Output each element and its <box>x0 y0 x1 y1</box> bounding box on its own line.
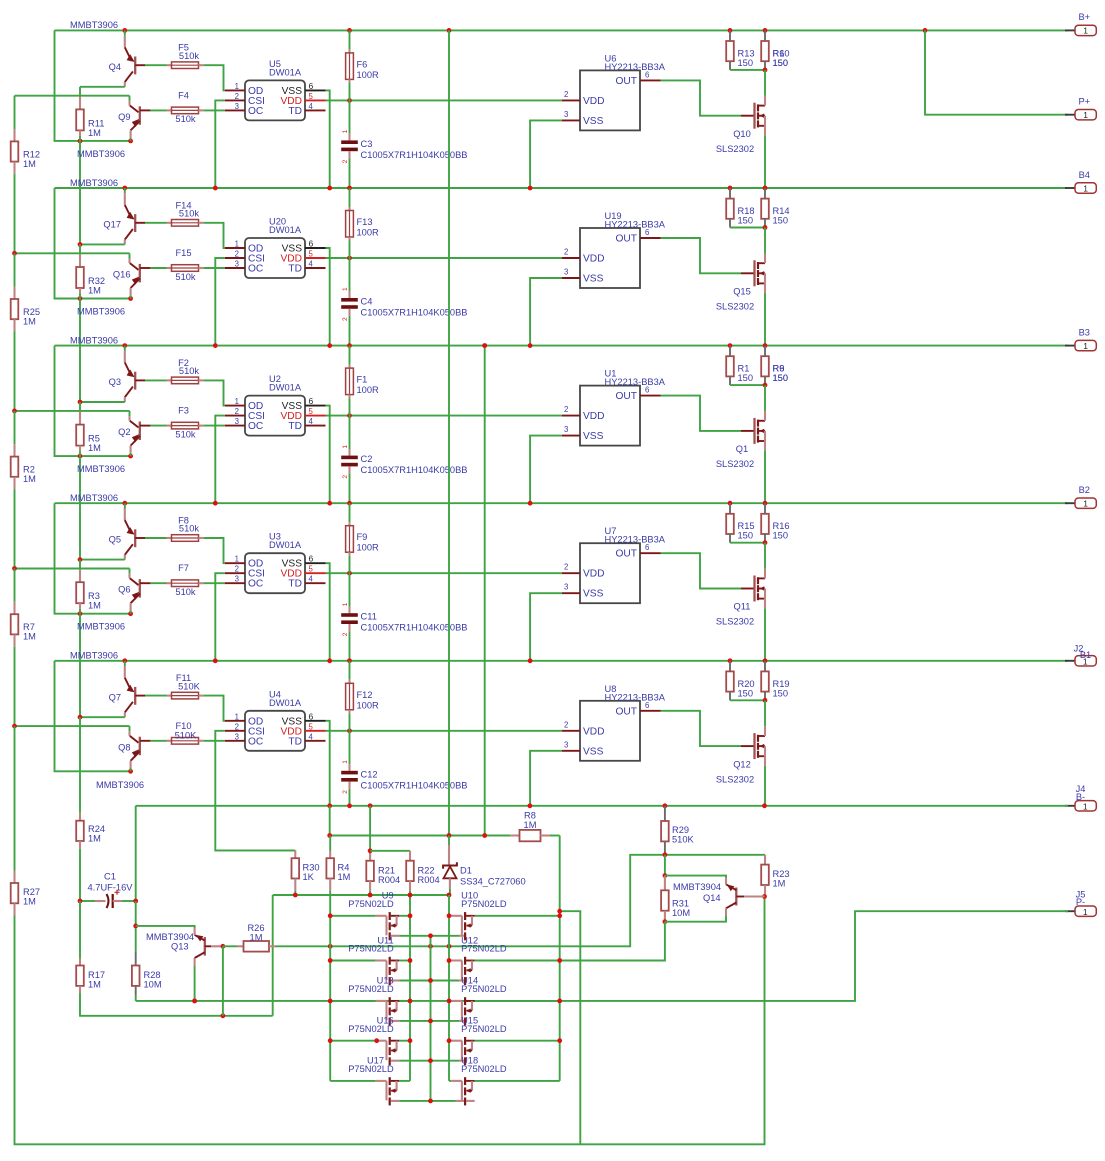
svg-text:HY2213-BB3A: HY2213-BB3A <box>605 220 666 230</box>
svg-text:OUT: OUT <box>615 391 637 402</box>
label R23 1M <box>773 869 790 889</box>
wire B- low bus <box>330 806 511 836</box>
svg-text:1M: 1M <box>23 632 36 642</box>
svg-text:4: 4 <box>309 732 314 741</box>
wire sense riser x272 <box>272 895 274 1016</box>
svg-text:510k: 510k <box>175 429 196 439</box>
junction (222.9,1015.8) <box>221 1013 226 1018</box>
svg-text:MMBT3906: MMBT3906 <box>70 178 118 188</box>
svg-text:1M: 1M <box>23 317 36 327</box>
svg-text:6: 6 <box>309 396 314 406</box>
svg-text:Q9: Q9 <box>118 112 130 122</box>
wire U3 VDD bus <box>326 572 563 574</box>
svg-text:510K: 510K <box>175 730 198 740</box>
svg-text:R30: R30 <box>303 863 320 873</box>
label R12 1M <box>23 149 40 169</box>
junction (329.7,835.5) <box>327 833 332 838</box>
node B3 label <box>1079 327 1090 337</box>
label F1 100R <box>357 375 380 396</box>
wire U7 VSS to rail <box>530 593 562 661</box>
label R31 10M <box>672 899 690 919</box>
svg-text:VSS: VSS <box>583 274 604 285</box>
svg-text:SLS2302: SLS2302 <box>716 302 754 312</box>
transistor U16 P75N02LD <box>330 1037 430 1065</box>
connector J2 pin 1 <box>1065 656 1096 667</box>
label R15 150 <box>738 521 755 541</box>
svg-text:R5: R5 <box>88 434 100 444</box>
label Q3 <box>109 377 121 387</box>
label Q5 <box>109 535 121 545</box>
svg-text:3: 3 <box>235 417 239 426</box>
svg-text:510K: 510K <box>178 681 201 691</box>
junction (130.6,456.1) <box>128 454 133 459</box>
node drain bus right junctions <box>557 913 562 1043</box>
svg-text:DW01A: DW01A <box>269 540 302 550</box>
resistor R5 1M <box>76 402 84 456</box>
label R27 1M <box>23 887 40 907</box>
label C12 <box>361 769 468 790</box>
transistor Q5 MMBT3906 <box>125 503 167 559</box>
svg-text:MMBT3906: MMBT3906 <box>96 780 144 790</box>
wire U5 VSS to rail <box>326 90 330 188</box>
resistor R19 150 <box>761 661 769 701</box>
fuse F12 100R <box>346 661 354 731</box>
wire B- left drop <box>135 806 137 901</box>
svg-text:R8: R8 <box>524 811 536 821</box>
svg-text:6: 6 <box>309 554 314 564</box>
svg-text:P75N02LD: P75N02LD <box>348 984 394 994</box>
svg-text:R25: R25 <box>23 307 40 317</box>
junction (222.9,946.3) <box>221 944 226 949</box>
svg-text:150: 150 <box>738 216 754 226</box>
label R24 1M <box>88 824 105 844</box>
svg-text:3: 3 <box>235 260 239 269</box>
fuse F2 510k <box>167 377 225 406</box>
svg-text:R3: R3 <box>88 591 100 601</box>
svg-text:P-: P- <box>1076 897 1085 907</box>
svg-text:1: 1 <box>1083 341 1088 351</box>
svg-text:F10: F10 <box>175 721 191 731</box>
connector B2 pin 1 <box>1065 498 1096 509</box>
label F3 510k <box>175 406 196 440</box>
junction (484.7,345.6) <box>482 343 487 348</box>
label MMBT3906 lower <box>96 780 144 790</box>
wire R31 top link <box>664 855 666 876</box>
svg-text:2: 2 <box>564 90 568 99</box>
transistor Q8 MMBT3906 <box>130 726 167 771</box>
svg-text:F13: F13 <box>357 217 373 227</box>
svg-text:1M: 1M <box>23 159 36 169</box>
transistor U15 P75N02LD <box>431 1037 560 1065</box>
wire Q4 collector to bus <box>80 86 125 88</box>
label U7 HY2213-BB3A <box>605 526 666 545</box>
svg-text:1: 1 <box>1083 26 1088 36</box>
resistor R1 150 <box>726 346 765 386</box>
wire bottom rail <box>15 897 765 1145</box>
wire row left frame <box>55 661 131 772</box>
wire U1 OUT to Q1 gate <box>661 396 742 431</box>
junction (349.5,573.2) <box>347 571 352 576</box>
wire row left frame <box>55 30 131 140</box>
wire Q8 collector to left bus <box>15 725 130 727</box>
svg-text:VDD: VDD <box>583 726 605 737</box>
svg-text:MMBT3906: MMBT3906 <box>77 464 125 474</box>
label F9 100R <box>357 532 380 553</box>
junction (765,385.1) <box>763 383 768 388</box>
svg-text:1M: 1M <box>524 820 537 830</box>
svg-text:Q13: Q13 <box>171 942 189 952</box>
svg-text:B-: B- <box>1076 792 1085 802</box>
wire B- drop to R28 <box>135 901 137 952</box>
svg-text:OUT: OUT <box>615 76 637 87</box>
transistor U12 P75N02LD <box>431 957 560 985</box>
svg-text:100R: 100R <box>357 228 380 238</box>
resistor R25 1M <box>11 253 19 411</box>
op-amp U6 HY2213-BB3A <box>562 70 661 130</box>
label MMBT3906 lower <box>77 464 125 474</box>
svg-text:4: 4 <box>309 575 314 584</box>
junction (194.6,1000.9) <box>192 999 197 1004</box>
wire bus x484 from B3 rail <box>484 346 486 836</box>
svg-text:1M: 1M <box>23 897 36 907</box>
svg-text:100R: 100R <box>357 385 380 395</box>
wire U3 VSS to rail <box>326 563 330 661</box>
junction (559.7,911.2) <box>557 909 562 914</box>
wire rail B1 <box>55 660 1069 662</box>
svg-text:3: 3 <box>564 425 568 434</box>
label C3 <box>361 139 468 160</box>
label R32 1M <box>88 276 105 296</box>
svg-text:R004: R004 <box>418 875 440 885</box>
svg-text:F7: F7 <box>178 563 189 573</box>
wire U2 VSS to rail <box>326 406 330 504</box>
op-amp U1 HY2213-BB3A <box>562 386 661 446</box>
svg-text:MMBT3906: MMBT3906 <box>70 335 118 345</box>
svg-text:C4: C4 <box>361 297 373 307</box>
svg-text:SLS2302: SLS2302 <box>716 144 754 154</box>
svg-text:B+: B+ <box>1078 12 1090 22</box>
wire U2 VDD bus <box>326 415 563 417</box>
svg-text:R15: R15 <box>738 521 755 531</box>
label MMBT3906 lower <box>77 307 125 317</box>
wire bus x80 segment <box>79 141 81 245</box>
svg-text:1: 1 <box>342 445 349 449</box>
svg-text:MMBT3904: MMBT3904 <box>146 932 194 942</box>
svg-text:1M: 1M <box>88 834 101 844</box>
svg-text:510K: 510K <box>672 835 695 845</box>
svg-text:R004: R004 <box>378 875 400 885</box>
node B2 label <box>1079 485 1090 495</box>
label F10 510K <box>175 721 198 741</box>
junction (664.9,854.8) <box>663 852 668 857</box>
wire U4 VSS to rail <box>326 721 330 806</box>
svg-text:C11: C11 <box>361 612 377 622</box>
node gate bus left junctions <box>328 913 333 1043</box>
label Q15 SLS2302 <box>716 287 754 312</box>
label U8 HY2213-BB3A <box>605 684 666 703</box>
op-amp U20 DW01A <box>225 238 326 278</box>
label F13 100R <box>357 217 380 238</box>
svg-text:B1: B1 <box>1080 650 1091 660</box>
junction (764.5,896.5) <box>762 894 767 899</box>
label R11 1M <box>88 118 104 137</box>
svg-text:1: 1 <box>235 240 239 249</box>
connector J5 pin 1 <box>1065 906 1096 917</box>
svg-text:510k: 510k <box>175 114 196 124</box>
svg-text:Q14: Q14 <box>703 893 721 903</box>
transistor Q3 MMBT3906 <box>125 346 167 402</box>
node J5 / P- label <box>1076 889 1086 907</box>
svg-text:DW01A: DW01A <box>269 225 302 235</box>
wire Q2 collector to left bus <box>15 410 130 412</box>
svg-text:R14: R14 <box>773 206 790 216</box>
svg-text:DW01A: DW01A <box>269 698 302 708</box>
transistor U11 P75N02LD <box>330 957 430 985</box>
resistor R10/R6 150 <box>761 30 769 70</box>
wire bus x80 segment <box>79 299 81 403</box>
junction (765,700.3) <box>763 698 768 703</box>
svg-text:C1005X7R1H104K050BB: C1005X7R1H104K050BB <box>361 465 468 475</box>
label U4 DW01A <box>269 689 302 708</box>
resistor R15 150 <box>726 503 765 543</box>
svg-text:R29: R29 <box>672 825 689 835</box>
svg-text:1M: 1M <box>88 443 101 453</box>
fuse F13 100R <box>346 188 354 258</box>
capacitor C4 C1005X7R1H104K050BB <box>341 258 358 346</box>
transistor Q11 SLS2302 <box>741 543 765 661</box>
svg-text:MMBT3906: MMBT3906 <box>77 622 125 632</box>
wire rail B3 <box>55 345 1069 347</box>
wire CSI sense <box>215 416 225 504</box>
transistor Q17 MMBT3906 <box>125 188 167 244</box>
junction (135.7,925.9) <box>133 924 138 929</box>
svg-text:5: 5 <box>309 565 314 574</box>
svg-text:1: 1 <box>235 712 239 721</box>
svg-text:Q10: Q10 <box>733 129 751 139</box>
junction (295.3,895) <box>293 893 298 898</box>
transistor U14 P75N02LD <box>431 997 560 1025</box>
label C4 <box>361 297 468 318</box>
svg-text:P75N02LD: P75N02LD <box>348 899 394 909</box>
resistor R4 1M <box>326 836 334 891</box>
capacitor C1 4.7UF-16V <box>80 890 136 908</box>
svg-text:1: 1 <box>1083 801 1088 811</box>
svg-text:C1005X7R1H104K050BB: C1005X7R1H104K050BB <box>361 308 468 318</box>
svg-text:1M: 1M <box>338 872 351 882</box>
svg-text:TD: TD <box>288 106 302 117</box>
svg-text:1M: 1M <box>250 933 263 943</box>
label R18 150 <box>738 206 755 226</box>
svg-text:510k: 510k <box>179 366 200 376</box>
wire U6 VSS to rail <box>530 120 562 188</box>
resistor R20 150 <box>726 661 765 701</box>
svg-text:6: 6 <box>309 711 314 721</box>
label F12 100R <box>357 690 380 711</box>
svg-text:R6: R6 <box>773 364 785 374</box>
wire bus x80 segment <box>79 717 81 813</box>
connector B4 pin 1 <box>1065 183 1096 194</box>
svg-text:150: 150 <box>773 531 789 541</box>
svg-text:Q11: Q11 <box>734 602 751 612</box>
svg-text:1: 1 <box>235 82 239 91</box>
svg-text:510k: 510k <box>179 524 200 534</box>
label R1 150 <box>738 364 754 384</box>
label U2 DW01A <box>269 374 302 393</box>
wire U19 VSS to rail <box>530 278 562 346</box>
node J4 / B- label <box>1076 784 1086 802</box>
label Q16 <box>113 270 131 280</box>
svg-text:R26: R26 <box>247 923 264 933</box>
junction (80,244.4) <box>78 242 83 247</box>
label U14 P75N02LD <box>461 976 507 994</box>
svg-text:P75N02LD: P75N02LD <box>348 1024 394 1034</box>
wire U20 VSS to rail <box>326 248 330 346</box>
label R20 150 <box>738 679 755 699</box>
junction (765,542.7) <box>763 540 768 545</box>
label R21 R004 <box>378 866 400 886</box>
resistor R17 1M <box>76 901 273 1016</box>
resistor R24 1M <box>76 813 84 901</box>
wire U5 VDD bus <box>326 99 563 101</box>
svg-text:C1005X7R1H104K050BB: C1005X7R1H104K050BB <box>361 780 468 790</box>
wire row left frame <box>55 503 131 614</box>
junction (664.9,875.6) <box>663 873 668 878</box>
svg-text:3: 3 <box>564 110 568 119</box>
transistor Q2 MMBT3906 <box>130 411 167 456</box>
svg-text:1M: 1M <box>88 980 101 990</box>
fuse F11 510K <box>167 692 225 721</box>
svg-text:4: 4 <box>309 260 314 269</box>
svg-text:150: 150 <box>773 216 789 226</box>
wire U20 VDD bus <box>326 257 563 259</box>
svg-text:510k: 510k <box>179 51 200 61</box>
fuse F1 100R <box>346 346 354 416</box>
svg-text:R27: R27 <box>23 887 40 897</box>
svg-text:2: 2 <box>235 92 239 101</box>
connector B3 pin 1 <box>1065 340 1096 351</box>
junction (130.6,298.5) <box>128 296 133 301</box>
label F2 510k <box>178 358 199 376</box>
label C11 <box>361 612 468 633</box>
label Q9 <box>118 112 130 122</box>
wire Q7 collector to bus <box>80 716 125 718</box>
svg-text:B3: B3 <box>1079 327 1090 337</box>
svg-text:3: 3 <box>564 583 568 592</box>
svg-text:MMBT3906: MMBT3906 <box>77 149 125 159</box>
svg-text:F1: F1 <box>357 375 368 385</box>
svg-text:6: 6 <box>309 239 314 249</box>
svg-text:P75N02LD: P75N02LD <box>461 984 507 994</box>
resistor R13 150 <box>726 30 765 70</box>
svg-text:2: 2 <box>564 405 568 414</box>
op-amp U19 HY2213-BB3A <box>562 228 661 288</box>
svg-text:510k: 510k <box>175 272 196 282</box>
svg-text:2: 2 <box>564 248 568 257</box>
svg-text:R32: R32 <box>88 276 105 286</box>
wire left gate bus x330 <box>329 891 331 1081</box>
label U1 HY2213-BB3A <box>605 369 666 388</box>
svg-text:Q4: Q4 <box>109 62 121 72</box>
node B+ rail junctions <box>122 28 927 33</box>
wire P- long run <box>136 911 1068 1001</box>
label R5 1M <box>88 434 101 454</box>
label U5 DW01A <box>269 59 302 78</box>
transistor Q7 MMBT3906 <box>125 661 167 717</box>
svg-text:1: 1 <box>342 287 349 291</box>
svg-text:P75N02LD: P75N02LD <box>461 1064 507 1074</box>
label U9 P75N02LD <box>348 891 394 909</box>
resistor R30 1K <box>215 850 299 895</box>
wire rail B2 <box>55 502 1069 504</box>
svg-text:150: 150 <box>773 58 789 68</box>
transistor U9 P75N02LD <box>330 912 430 940</box>
label Q4 <box>109 62 121 72</box>
wire rail B+ <box>55 29 1069 31</box>
wire rail B- <box>136 805 1068 807</box>
label Q8 <box>118 742 130 752</box>
wire rail B4 <box>55 187 1069 189</box>
resistor R31 10M <box>661 876 669 922</box>
svg-text:OC: OC <box>248 579 263 590</box>
label MMBT3906 lower <box>77 622 125 632</box>
svg-text:Q2: Q2 <box>118 427 130 437</box>
svg-text:150: 150 <box>738 531 754 541</box>
svg-text:3: 3 <box>235 732 239 741</box>
capacitor C2 C1005X7R1H104K050BB <box>341 416 358 504</box>
junction (194.6,1000.9) P- taps <box>192 999 197 1004</box>
svg-text:2: 2 <box>235 722 239 731</box>
node B1 rail junctions <box>122 658 767 663</box>
svg-text:HY2213-BB3A: HY2213-BB3A <box>605 692 666 702</box>
node B3 rail junctions <box>122 343 767 348</box>
resistor R29 510K <box>661 806 669 855</box>
svg-text:150: 150 <box>738 373 754 383</box>
label R16 150 <box>773 521 790 541</box>
wire CSI sense <box>215 731 295 851</box>
svg-text:TD: TD <box>288 736 302 747</box>
svg-text:VSS: VSS <box>583 589 604 600</box>
svg-text:VSS: VSS <box>583 116 604 127</box>
label Q14 MMBT3904 <box>673 882 721 903</box>
label R8 1M <box>524 811 537 831</box>
capacitor C12 C1005X7R1H104K050BB <box>341 731 358 806</box>
connector J4 pin 1 <box>1065 801 1096 812</box>
fuse F8 510k <box>167 535 225 564</box>
junction (80,559.6) <box>78 557 83 562</box>
fuse F4 510k <box>167 107 225 114</box>
svg-text:R6: R6 <box>773 48 785 58</box>
junction (330.2,946.3) <box>328 944 333 949</box>
svg-text:5: 5 <box>309 92 314 101</box>
svg-text:R18: R18 <box>738 206 755 216</box>
label R28 10M <box>144 970 162 990</box>
resistor R23 1M <box>761 855 769 897</box>
svg-text:2: 2 <box>564 720 568 729</box>
fuse F7 510k <box>167 580 225 587</box>
svg-text:100R: 100R <box>357 543 380 553</box>
capacitor C11 C1005X7R1H104K050BB <box>341 573 358 661</box>
svg-text:C1005X7R1H104K050BB: C1005X7R1H104K050BB <box>361 623 468 633</box>
resistor R11 1M <box>76 87 84 141</box>
label R17 1M <box>88 970 105 990</box>
svg-text:1M: 1M <box>88 286 101 296</box>
label Q13 MMBT3904 <box>146 932 194 952</box>
svg-text:VDD: VDD <box>583 411 605 422</box>
svg-text:R16: R16 <box>773 521 790 531</box>
svg-text:3: 3 <box>564 268 568 277</box>
svg-text:Q8: Q8 <box>118 742 130 752</box>
label R7 1M <box>23 622 36 642</box>
